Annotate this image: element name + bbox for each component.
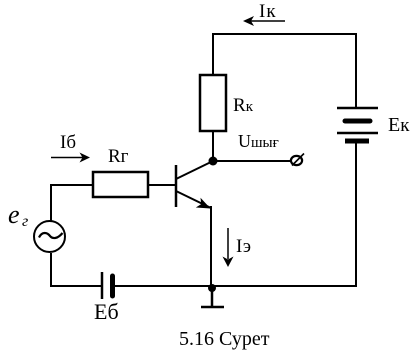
- wire base: [148, 184, 175, 186]
- svg-text:Uшығ: Uшығ: [238, 131, 279, 151]
- wire collector vertical: [212, 131, 214, 162]
- wire bottom horizontal right: [114, 285, 357, 287]
- svg-text:Iк: Iк: [259, 1, 277, 22]
- svg-text:Rк: Rк: [233, 95, 254, 116]
- svg-text:Iэ: Iэ: [236, 236, 251, 257]
- wire bottom horizontal left: [51, 253, 102, 286]
- wire top horizontal: [212, 33, 356, 35]
- wire emitter vertical: [210, 206, 212, 287]
- wire RK top: [212, 33, 214, 75]
- svg-text:Eк: Eк: [388, 114, 410, 136]
- svg-text:г: г: [22, 213, 28, 230]
- svg-text:Iб: Iб: [60, 132, 76, 153]
- arrow Ib: [51, 153, 90, 163]
- battery Eb: [102, 272, 113, 299]
- wire left vertical upper: [51, 185, 93, 221]
- transistor VT: [176, 161, 213, 209]
- wire right vertical lower: [355, 143, 357, 287]
- svg-text:Rг: Rг: [108, 146, 129, 167]
- terminal output: [291, 154, 304, 166]
- arrow Ie: [223, 228, 234, 267]
- svg-text:e: e: [8, 200, 20, 229]
- arrow IK: [243, 16, 285, 26]
- wire right vertical upper: [355, 33, 357, 108]
- resistor Rg: [93, 172, 148, 197]
- svg-text:Еб: Еб: [94, 299, 119, 324]
- node emitter junction: [208, 284, 216, 292]
- node collector junction: [209, 157, 218, 166]
- resistor RK: [200, 75, 226, 131]
- source eg (AC): [34, 221, 65, 252]
- battery EK: [337, 108, 378, 141]
- wire output: [213, 160, 292, 162]
- svg-text:5.16 Сурет: 5.16 Сурет: [179, 328, 270, 350]
- ground: [201, 288, 224, 307]
